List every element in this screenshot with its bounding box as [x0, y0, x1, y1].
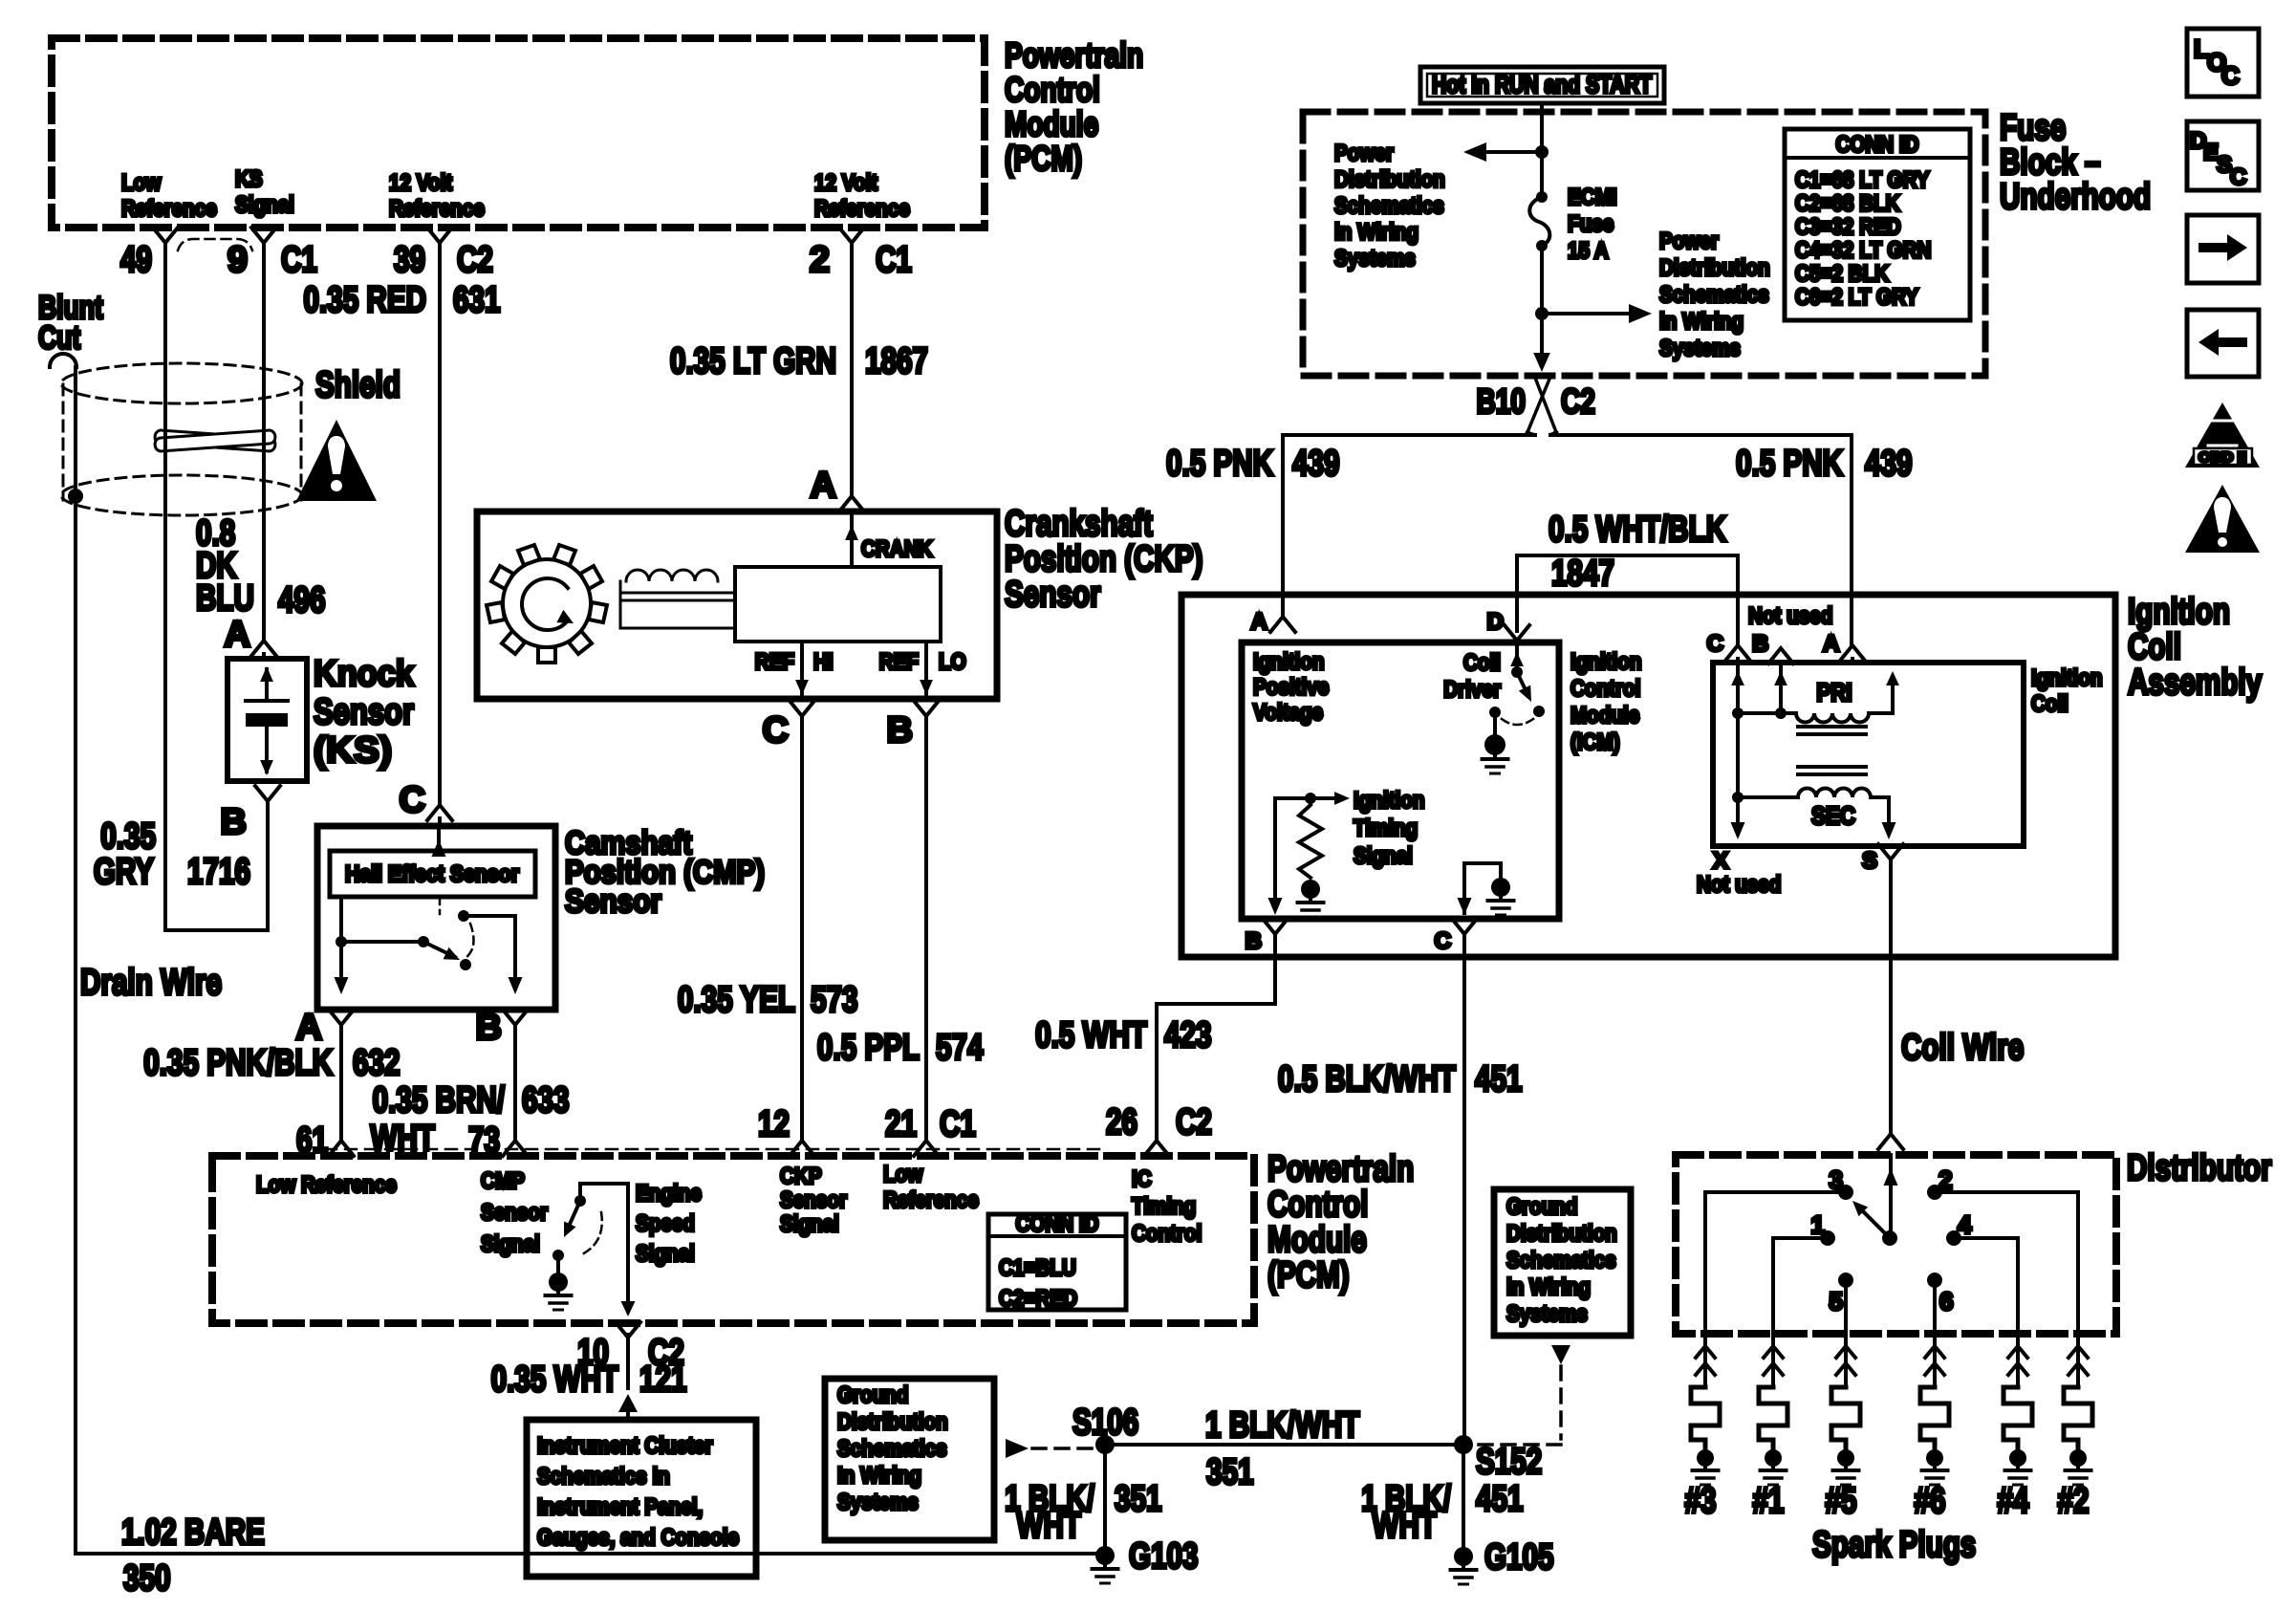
svg-text:5: 5	[1830, 1287, 1843, 1316]
svg-text:X: X	[1713, 848, 1728, 874]
svg-text:REF: REF	[755, 649, 794, 675]
svg-text:BLU: BLU	[196, 578, 254, 619]
svg-text:Reference: Reference	[389, 196, 485, 222]
svg-text:A: A	[225, 615, 250, 655]
svg-text:C: C	[2221, 61, 2240, 90]
svg-text:21: 21	[885, 1104, 917, 1144]
svg-text:IC: IC	[1132, 1166, 1152, 1192]
svg-text:A: A	[811, 466, 836, 506]
svg-text:439: 439	[1865, 444, 1913, 484]
svg-text:A: A	[1251, 609, 1267, 635]
svg-text:Engine: Engine	[636, 1181, 702, 1207]
svg-text:451: 451	[1476, 1479, 1524, 1519]
svg-text:B: B	[1752, 631, 1768, 657]
svg-text:Coil Wire: Coil Wire	[1901, 1028, 2024, 1068]
svg-text:Ignition: Ignition	[2128, 592, 2230, 632]
svg-text:(PCM): (PCM)	[1267, 1255, 1350, 1295]
svg-text:Ignition: Ignition	[1253, 649, 1325, 675]
svg-text:Signal: Signal	[235, 192, 294, 218]
svg-text:Powertrain: Powertrain	[1005, 35, 1143, 75]
svg-text:C: C	[1435, 928, 1451, 954]
svg-text:#3: #3	[1685, 1481, 1717, 1521]
svg-text:496: 496	[278, 580, 326, 620]
svg-text:C6=2 LT GRY: C6=2 LT GRY	[1795, 285, 1918, 311]
svg-text:Knock: Knock	[314, 654, 415, 694]
svg-text:Sensor: Sensor	[1005, 575, 1101, 615]
svg-text:C: C	[2230, 164, 2246, 190]
svg-text:Systems: Systems	[837, 1490, 919, 1515]
svg-text:HI: HI	[813, 649, 834, 675]
svg-text:Powertrain: Powertrain	[1267, 1149, 1414, 1189]
svg-text:C1=BLU: C1=BLU	[999, 1255, 1076, 1281]
svg-text:#5: #5	[1826, 1481, 1857, 1521]
svg-text:3: 3	[1830, 1165, 1843, 1194]
svg-text:631: 631	[453, 280, 501, 320]
svg-text:573: 573	[811, 980, 858, 1020]
svg-text:0.35: 0.35	[100, 816, 156, 857]
svg-text:CRANK: CRANK	[861, 536, 933, 562]
svg-text:PRI: PRI	[1816, 678, 1852, 707]
svg-text:SEC: SEC	[1811, 801, 1855, 830]
svg-text:1 BLK/WHT: 1 BLK/WHT	[1205, 1405, 1359, 1446]
svg-text:Drain Wire: Drain Wire	[80, 963, 222, 1003]
svg-text:1716: 1716	[187, 852, 250, 892]
svg-text:CONN ID: CONN ID	[1015, 1211, 1098, 1237]
svg-text:2: 2	[1939, 1165, 1952, 1194]
svg-text:C: C	[400, 780, 425, 820]
svg-text:4: 4	[1958, 1210, 1972, 1239]
svg-text:0.5 WHT/BLK: 0.5 WHT/BLK	[1549, 510, 1727, 550]
svg-text:1867: 1867	[865, 341, 928, 381]
svg-text:OBD II: OBD II	[2199, 449, 2246, 466]
svg-text:Instrument Panel,: Instrument Panel,	[537, 1494, 703, 1520]
svg-text:Systems: Systems	[1506, 1301, 1588, 1327]
svg-text:26: 26	[1106, 1102, 1137, 1142]
svg-text:Low: Low	[121, 170, 162, 196]
svg-text:Reference: Reference	[883, 1187, 979, 1213]
svg-text:Schematics: Schematics	[1659, 282, 1769, 308]
svg-text:Reference: Reference	[814, 196, 910, 222]
svg-text:Sensor: Sensor	[481, 1200, 548, 1226]
svg-text:Coil: Coil	[2031, 691, 2069, 717]
svg-text:C3=32 RED: C3=32 RED	[1795, 214, 1901, 240]
svg-text:Power: Power	[1659, 228, 1719, 254]
svg-text:Control: Control	[1132, 1221, 1202, 1247]
svg-text:49: 49	[120, 240, 152, 280]
svg-text:A: A	[1823, 631, 1839, 657]
svg-text:G103: G103	[1129, 1536, 1199, 1577]
svg-text:Voltage: Voltage	[1253, 700, 1323, 726]
svg-text:G105: G105	[1484, 1537, 1554, 1577]
svg-text:2: 2	[810, 240, 830, 280]
svg-text:Distribution: Distribution	[837, 1409, 948, 1435]
svg-text:Signal: Signal	[780, 1211, 839, 1237]
svg-text:Distributor: Distributor	[2127, 1148, 2272, 1188]
svg-text:Positive: Positive	[1253, 675, 1329, 701]
svg-text:Shield: Shield	[315, 365, 401, 405]
svg-text:Cut: Cut	[38, 320, 80, 357]
svg-text:0.5 PNK: 0.5 PNK	[1166, 444, 1273, 484]
svg-text:Control: Control	[1267, 1185, 1368, 1225]
svg-text:(ICM): (ICM)	[1570, 729, 1620, 755]
svg-text:1: 1	[1811, 1210, 1825, 1239]
svg-text:39: 39	[394, 240, 425, 280]
svg-text:Instrument Cluster: Instrument Cluster	[537, 1433, 713, 1459]
svg-text:Distribution: Distribution	[1506, 1221, 1617, 1247]
svg-text:#4: #4	[1998, 1481, 2029, 1521]
svg-text:(KS): (KS)	[314, 730, 392, 771]
svg-text:B: B	[476, 1008, 502, 1048]
svg-text:Spark Plugs: Spark Plugs	[1812, 1525, 1976, 1565]
svg-text:0.5 BLK/WHT: 0.5 BLK/WHT	[1278, 1059, 1456, 1099]
svg-text:Sensor: Sensor	[565, 883, 661, 920]
svg-text:C2: C2	[457, 240, 493, 280]
svg-text:II: II	[2216, 423, 2229, 447]
svg-text:Coil: Coil	[2128, 627, 2181, 667]
svg-text:Module: Module	[1570, 703, 1639, 729]
svg-text:In Wiring: In Wiring	[837, 1463, 921, 1489]
svg-text:LO: LO	[939, 649, 966, 675]
svg-text:in Wiring: in Wiring	[1659, 309, 1744, 335]
svg-text:S152: S152	[1476, 1442, 1542, 1482]
svg-text:WHT: WHT	[1373, 1506, 1438, 1546]
svg-text:WHT: WHT	[1017, 1506, 1082, 1546]
svg-text:A: A	[296, 1008, 322, 1048]
svg-text:1.02 BARE: 1.02 BARE	[121, 1512, 265, 1553]
svg-text:Not used: Not used	[1697, 872, 1781, 898]
svg-text:B: B	[1245, 928, 1262, 954]
svg-text:0.5 WHT: 0.5 WHT	[1035, 1015, 1147, 1055]
svg-text:Systems: Systems	[1334, 246, 1416, 272]
svg-text:Timing: Timing	[1354, 816, 1418, 841]
svg-text:Crankshaft: Crankshaft	[1005, 504, 1153, 544]
svg-text:Control: Control	[1570, 676, 1640, 702]
svg-text:CMP: CMP	[481, 1168, 525, 1194]
svg-text:0.35 LT GRN: 0.35 LT GRN	[670, 341, 836, 381]
svg-text:C1: C1	[876, 240, 912, 280]
svg-text:C: C	[763, 710, 789, 751]
svg-text:#2: #2	[2058, 1481, 2090, 1521]
svg-text:C1: C1	[281, 240, 317, 280]
svg-text:Ignition: Ignition	[1354, 788, 1425, 814]
svg-text:574: 574	[936, 1028, 984, 1068]
svg-text:C4=32 LT GRN: C4=32 LT GRN	[1795, 238, 1931, 264]
svg-text:B: B	[887, 710, 913, 751]
svg-text:Control: Control	[1005, 70, 1100, 109]
svg-text:B: B	[221, 802, 247, 842]
svg-text:Ignition: Ignition	[1570, 649, 1642, 675]
svg-text:Fuse: Fuse	[1568, 211, 1614, 237]
svg-text:Distribution: Distribution	[1334, 167, 1445, 193]
svg-text:632: 632	[353, 1043, 401, 1083]
svg-text:Hall Effect Sensor: Hall Effect Sensor	[345, 861, 519, 887]
svg-text:#6: #6	[1915, 1481, 1946, 1521]
svg-text:Signal: Signal	[481, 1231, 540, 1257]
svg-text:Not used: Not used	[1748, 603, 1832, 629]
svg-text:Module: Module	[1005, 104, 1098, 143]
svg-text:Ground: Ground	[837, 1382, 909, 1408]
svg-text:Power: Power	[1334, 141, 1394, 166]
svg-text:Schematics in: Schematics in	[537, 1464, 670, 1490]
svg-text:C: C	[1707, 631, 1723, 657]
svg-text:C2: C2	[1561, 381, 1595, 421]
svg-text:Driver: Driver	[1443, 677, 1501, 703]
svg-text:Timing: Timing	[1132, 1194, 1196, 1220]
svg-text:1847: 1847	[1551, 554, 1614, 594]
svg-text:CONN ID: CONN ID	[1835, 132, 1918, 158]
svg-text:C2: C2	[1176, 1102, 1212, 1142]
svg-text:CKP: CKP	[780, 1164, 822, 1189]
svg-text:Position (CKP): Position (CKP)	[1005, 539, 1203, 579]
svg-text:in Wiring: in Wiring	[1334, 220, 1419, 246]
svg-text:Assembly: Assembly	[2128, 663, 2262, 703]
svg-text:C2=RED: C2=RED	[999, 1286, 1077, 1312]
svg-text:351: 351	[1206, 1452, 1254, 1492]
svg-text:Underhood: Underhood	[2000, 177, 2151, 217]
svg-text:Reference: Reference	[121, 196, 217, 222]
svg-text:C1=68 LT GRY: C1=68 LT GRY	[1795, 167, 1930, 193]
svg-text:15 A: 15 A	[1568, 238, 1609, 264]
svg-text:Coil: Coil	[1463, 650, 1501, 676]
svg-text:Signal: Signal	[1354, 843, 1413, 869]
svg-text:423: 423	[1164, 1015, 1212, 1055]
svg-text:B10: B10	[1477, 381, 1527, 421]
svg-text:C2=68 BLK: C2=68 BLK	[1795, 191, 1900, 217]
svg-text:0.35 YEL: 0.35 YEL	[678, 980, 795, 1020]
svg-text:REF: REF	[879, 649, 919, 675]
svg-text:in Wiring: in Wiring	[1506, 1274, 1591, 1300]
svg-text:Ignition: Ignition	[2031, 665, 2103, 691]
svg-text:12 Volt: 12 Volt	[389, 170, 452, 196]
svg-text:0.35 PNK/BLK: 0.35 PNK/BLK	[143, 1043, 333, 1083]
svg-text:439: 439	[1292, 444, 1340, 484]
svg-text:633: 633	[522, 1080, 570, 1120]
svg-text:0.35 RED: 0.35 RED	[304, 280, 427, 320]
svg-text:Signal: Signal	[636, 1241, 695, 1267]
svg-text:Hot in RUN and START: Hot in RUN and START	[1432, 70, 1652, 98]
svg-text:12: 12	[758, 1104, 790, 1144]
svg-text:121: 121	[639, 1360, 687, 1400]
svg-text:Speed: Speed	[636, 1211, 695, 1237]
svg-text:Sensor: Sensor	[780, 1187, 847, 1213]
svg-text:Schematics: Schematics	[1334, 193, 1444, 219]
svg-text:S: S	[1862, 848, 1877, 874]
svg-text:0.35 WHT: 0.35 WHT	[491, 1360, 618, 1400]
svg-text:Low: Low	[883, 1162, 923, 1187]
svg-text:350: 350	[123, 1558, 171, 1599]
svg-text:ECMI: ECMI	[1568, 185, 1617, 210]
svg-text:Low Reference: Low Reference	[256, 1172, 397, 1198]
svg-text:451: 451	[1475, 1059, 1523, 1099]
svg-text:12 Volt: 12 Volt	[814, 170, 877, 196]
svg-text:Gauges, and Console: Gauges, and Console	[537, 1525, 739, 1551]
svg-text:C5=2 BLK: C5=2 BLK	[1795, 261, 1890, 287]
svg-text:Systems: Systems	[1659, 336, 1741, 361]
svg-text:9: 9	[227, 240, 248, 280]
svg-text:6: 6	[1939, 1287, 1953, 1316]
svg-text:0.5 PNK: 0.5 PNK	[1736, 444, 1843, 484]
svg-text:#1: #1	[1753, 1481, 1785, 1521]
svg-text:0.35 BRN/: 0.35 BRN/	[373, 1080, 506, 1120]
svg-text:Module: Module	[1267, 1220, 1367, 1260]
svg-text:351: 351	[1115, 1479, 1162, 1519]
svg-text:Schematics: Schematics	[837, 1436, 947, 1462]
svg-text:C1: C1	[940, 1104, 976, 1144]
svg-text:GRY: GRY	[94, 852, 154, 892]
svg-text:Ground: Ground	[1506, 1194, 1578, 1220]
svg-text:Distribution: Distribution	[1659, 255, 1770, 281]
svg-text:D: D	[1487, 609, 1504, 635]
svg-text:Sensor: Sensor	[314, 692, 414, 732]
svg-text:Schematics: Schematics	[1506, 1248, 1616, 1273]
svg-text:0.5 PPL: 0.5 PPL	[817, 1028, 920, 1068]
svg-text:KS: KS	[235, 166, 263, 192]
svg-text:(PCM): (PCM)	[1005, 139, 1082, 178]
